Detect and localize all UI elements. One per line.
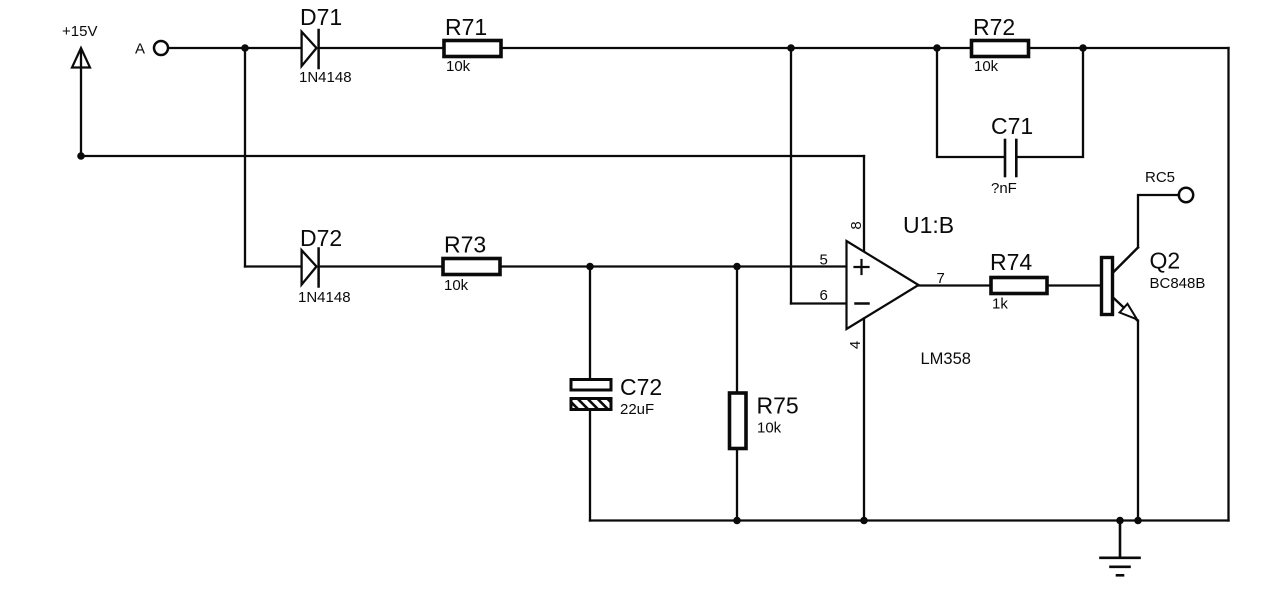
diode D71 <box>302 30 319 68</box>
wire C72 branch vertical lower <box>589 410 591 521</box>
ground symbol <box>1101 521 1140 576</box>
svg-text:+15V: +15V <box>62 23 97 40</box>
svg-text:RC5: RC5 <box>1145 169 1175 186</box>
junction bottom rail at x=737 <box>733 517 741 525</box>
resistor R74 body <box>991 278 1047 294</box>
svg-text:R75: R75 <box>757 393 799 419</box>
junction top wire at x=937 (C71 left) <box>933 44 941 52</box>
wire C72 branch vertical upper <box>589 267 591 380</box>
wire op-amp output (pin 7) to R74 <box>919 284 992 286</box>
wire R73 to op-amp plus input (pin 5) <box>500 265 847 267</box>
wire +15V rail horizontal <box>81 155 864 157</box>
wire bottom rail horizontal <box>590 519 1229 521</box>
op-amp U1:B triangle body <box>847 241 919 329</box>
wire R75 branch vertical lower <box>736 449 738 521</box>
svg-text:R73: R73 <box>444 232 486 258</box>
svg-text:10k: 10k <box>974 58 999 75</box>
svg-text:C71: C71 <box>991 113 1033 139</box>
junction bottom rail at x=1138 <box>1134 517 1142 525</box>
wire pin6 branch horizontal to op-amp minus input <box>791 302 847 304</box>
terminal RC5 circle <box>1179 188 1193 202</box>
svg-text:D71: D71 <box>300 4 342 30</box>
junction top wire at x=245 <box>241 44 249 52</box>
wire R74 to Q2 base <box>1047 284 1102 286</box>
svg-text:22uF: 22uF <box>620 401 654 418</box>
svg-text:?nF: ?nF <box>991 180 1017 197</box>
svg-text:A: A <box>135 41 145 58</box>
resistor R72 body <box>972 41 1029 57</box>
wire R75 branch vertical upper <box>736 267 738 394</box>
wire right rail vertical <box>1227 48 1229 521</box>
transistor Q2 collector diagonal <box>1113 248 1139 274</box>
op-amp minus input marking <box>856 302 869 305</box>
capacitor C71 plates <box>1005 140 1016 176</box>
svg-text:6: 6 <box>820 287 828 304</box>
svg-text:1N4148: 1N4148 <box>299 69 352 86</box>
wire pin6 branch vertical <box>790 48 792 304</box>
svg-text:C72: C72 <box>620 374 662 400</box>
wire op-amp pin 8 drop from +15V rail <box>863 156 865 252</box>
svg-text:1k: 1k <box>992 296 1008 313</box>
op-amp plus input marking <box>855 260 869 274</box>
transistor Q2 emitter arrowhead <box>1120 304 1137 320</box>
wire D72 cathode to R73 <box>319 265 443 267</box>
capacitor C72 top plate <box>571 380 611 391</box>
svg-text:10k: 10k <box>757 420 782 437</box>
wire Q2 collector vertical to RC5 <box>1138 195 1179 248</box>
terminal A circle <box>154 41 168 55</box>
wire Q2 emitter to bottom rail <box>1137 321 1139 521</box>
resistor R75 body <box>730 393 747 449</box>
junction top wire at x=791 (pin6 branch) <box>787 44 795 52</box>
svg-text:5: 5 <box>820 252 828 269</box>
junction pin5 wire at x=737 (R75 branch) <box>733 263 741 271</box>
wire C71 right branch <box>1017 48 1083 157</box>
svg-text:R74: R74 <box>990 249 1032 275</box>
wire A to D71 anode <box>169 47 302 49</box>
junction at +15V rail corner <box>77 152 85 160</box>
wire C71 left branch <box>937 48 1005 157</box>
junction top wire at x=1083 (C71 right) <box>1079 44 1087 52</box>
junction pin5 wire at x=590 (C72 branch) <box>586 263 594 271</box>
svg-text:LM358: LM358 <box>921 350 971 368</box>
transistor Q2 emitter diagonal <box>1113 297 1138 321</box>
svg-text:1N4148: 1N4148 <box>298 289 351 306</box>
svg-text:4: 4 <box>847 341 864 349</box>
diode D72 <box>302 249 319 287</box>
wire R71 to R72 <box>501 47 972 49</box>
junction bottom rail at x=1120 (ground) <box>1116 517 1124 525</box>
wire R72 to top-right corner <box>1029 47 1229 49</box>
junction bottom rail at x=864 <box>860 517 868 525</box>
svg-text:D72: D72 <box>300 225 342 251</box>
svg-text:Q2: Q2 <box>1150 248 1181 274</box>
svg-text:BC848B: BC848B <box>1150 275 1206 292</box>
svg-text:8: 8 <box>848 221 865 229</box>
transistor Q2 base bar <box>1102 258 1113 315</box>
svg-text:U1:B: U1:B <box>903 212 954 238</box>
wire D72 branch horizontal to D72 anode <box>245 265 301 267</box>
svg-text:10k: 10k <box>444 277 469 294</box>
wire D72 branch vertical from node A net <box>244 48 246 267</box>
resistor R73 body <box>443 259 500 275</box>
wire op-amp pin 4 to bottom rail <box>863 319 865 521</box>
power +15V arrow symbol <box>72 48 90 156</box>
capacitor C72 bottom plate (hatched) <box>566 397 619 410</box>
resistor R71 body <box>444 41 501 57</box>
svg-text:R71: R71 <box>445 14 487 40</box>
wire D71 cathode to R71 <box>319 47 444 49</box>
svg-text:R72: R72 <box>973 14 1015 40</box>
svg-text:10k: 10k <box>446 58 471 75</box>
